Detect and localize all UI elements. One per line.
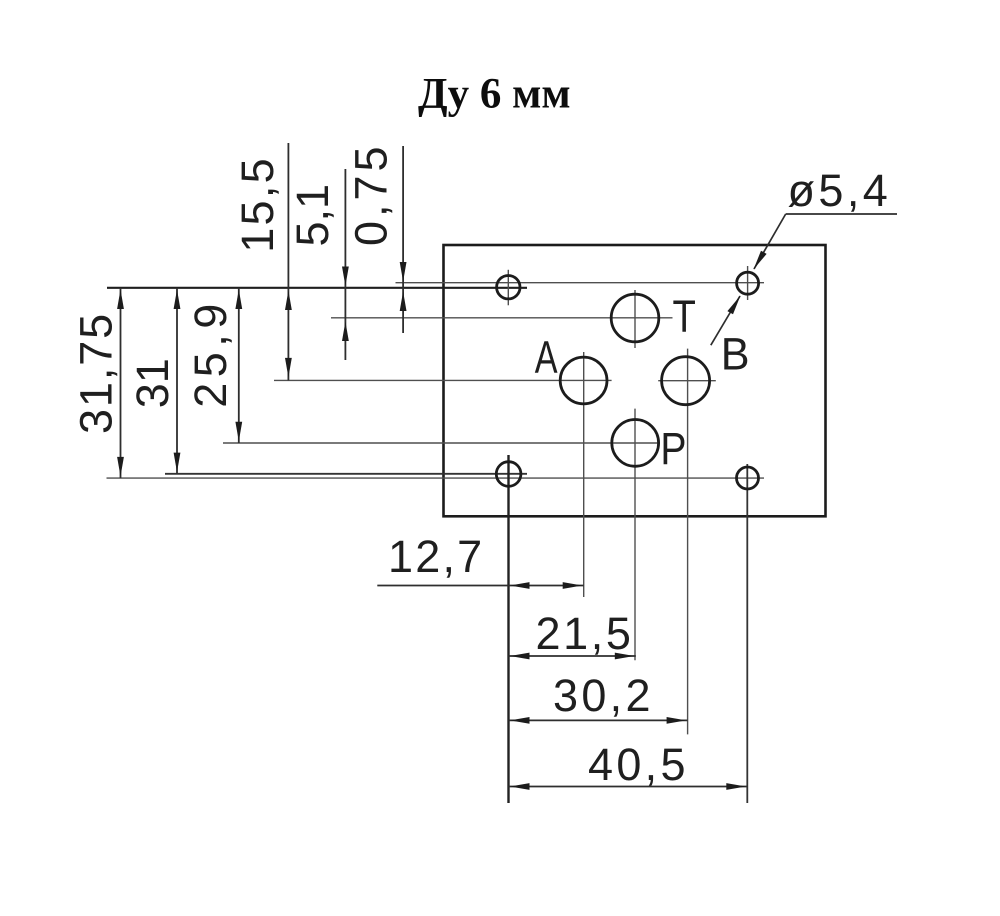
svg-text:40,5: 40,5 — [588, 739, 689, 790]
svg-text:31,75: 31,75 — [71, 312, 122, 434]
svg-text:25,9: 25,9 — [185, 298, 236, 408]
svg-text:5,1: 5,1 — [287, 184, 338, 247]
svg-text:ø5,4: ø5,4 — [788, 165, 892, 216]
svg-text:15,5: 15,5 — [232, 156, 283, 253]
svg-text:T: T — [673, 291, 696, 342]
svg-text:30,2: 30,2 — [553, 670, 654, 721]
svg-text:Ду 6 мм: Ду 6 мм — [418, 71, 571, 118]
svg-text:0,75: 0,75 — [345, 142, 396, 246]
svg-text:A: A — [535, 333, 558, 383]
svg-text:31: 31 — [127, 358, 178, 408]
svg-text:12,7: 12,7 — [388, 531, 484, 582]
svg-text:P: P — [660, 423, 686, 473]
svg-text:21,5: 21,5 — [536, 608, 634, 659]
svg-text:B: B — [721, 330, 750, 380]
